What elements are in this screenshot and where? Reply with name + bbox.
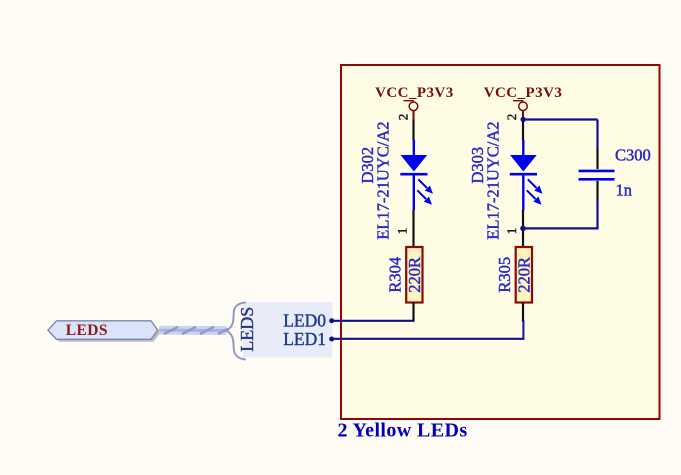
svg-text:LED1: LED1 xyxy=(283,329,326,349)
harness type label LEDS (vertical) xyxy=(237,307,257,352)
svg-text:1: 1 xyxy=(504,228,519,235)
resistor R304 xyxy=(406,247,422,303)
harness connector brace xyxy=(226,302,246,359)
designator D302 xyxy=(358,147,377,184)
pin 2 of D303 xyxy=(504,114,523,140)
svg-text:2: 2 xyxy=(396,114,411,121)
power port VCC_P3V3 (D303) xyxy=(484,85,563,120)
power port VCC_P3V3 (D302) xyxy=(375,85,454,120)
pin of R305 bottom xyxy=(522,303,524,322)
svg-text:2: 2 xyxy=(504,114,519,121)
svg-text:1n: 1n xyxy=(616,181,633,200)
harness cable (rope) xyxy=(159,327,228,334)
svg-text:R305: R305 xyxy=(495,257,514,293)
svg-text:220R: 220R xyxy=(514,257,533,293)
harness label LEDS (hexagon flag) xyxy=(48,321,160,342)
value 220R (R305) xyxy=(514,257,533,293)
pin 1 of D303 xyxy=(504,210,523,247)
designator R305 xyxy=(495,257,514,293)
svg-text:VCC_P3V3: VCC_P3V3 xyxy=(484,85,563,101)
svg-text:C300: C300 xyxy=(615,145,651,164)
LED D303 xyxy=(510,140,543,210)
junction node at D303 pin 2 xyxy=(521,117,526,122)
value EL17-21UYC/A2 (D303) xyxy=(484,121,503,239)
value 1n (C300) xyxy=(616,181,633,200)
wire C300 bottom to D303 pin1 xyxy=(523,200,599,228)
svg-text:LED0: LED0 xyxy=(283,310,326,330)
capacitor C300 xyxy=(579,149,615,201)
resistor R305 xyxy=(516,247,532,303)
svg-text:LEDS: LEDS xyxy=(66,322,108,339)
wire LED1 xyxy=(332,321,524,340)
svg-text:1: 1 xyxy=(395,228,410,235)
svg-text:LEDS: LEDS xyxy=(237,307,257,352)
caption 2 Yellow LEDs xyxy=(338,420,468,442)
svg-text:R304: R304 xyxy=(385,257,404,293)
pin 1 of D302 xyxy=(395,210,414,247)
value 220R (R304) xyxy=(405,257,424,293)
wire LED0 xyxy=(332,320,415,322)
svg-text:2 Yellow LEDs: 2 Yellow LEDs xyxy=(338,420,468,442)
harness connector body xyxy=(243,302,332,358)
pin 2 of D302 xyxy=(396,114,414,140)
designator C300 xyxy=(615,145,651,164)
value EL17-21UYC/A2 (D302) xyxy=(374,121,393,239)
svg-text:VCC_P3V3: VCC_P3V3 xyxy=(375,85,454,101)
junction node at D303 pin 1 xyxy=(520,226,526,232)
designator D303 xyxy=(468,147,487,184)
wire D303 pin2 to C300 top xyxy=(523,120,597,149)
port LED1 xyxy=(283,329,334,349)
svg-text:220R: 220R xyxy=(405,257,424,293)
port LED0 xyxy=(283,310,334,330)
designator R304 xyxy=(385,257,404,293)
svg-text:EL17-21UYC/A2: EL17-21UYC/A2 xyxy=(484,121,503,239)
svg-text:EL17-21UYC/A2: EL17-21UYC/A2 xyxy=(374,121,393,239)
pin of R304 bottom xyxy=(412,303,414,322)
sheet region box xyxy=(341,65,660,419)
LED D302 xyxy=(400,140,433,210)
